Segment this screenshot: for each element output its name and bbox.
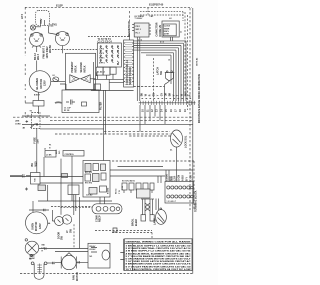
motor side label (48, 222, 51, 225)
main terminal block (165, 182, 194, 204)
cavity box (36, 11, 50, 26)
svg-text:9 V VIOLET FAN MOTOR CIRCUITS: 9 V VIOLET FAN MOTOR CIRCUITS 120 VAC 60 (126, 265, 192, 268)
svg-text:J1: J1 (181, 31, 183, 33)
svg-text:FIL 3: FIL 3 (136, 33, 140, 35)
vertical text right of T1 (156, 22, 162, 36)
label TM1 (52, 24, 57, 27)
svg-text:BR: BR (169, 93, 172, 97)
legend inner border (122, 239, 124, 271)
svg-text:1 BK BLACK SUPPLY L1 CIRCUITS: 1 BK BLACK SUPPLY L1 CIRCUITS 120 VAC 60 (126, 245, 192, 248)
label right of clock (181, 31, 183, 33)
svg-text:A BU: A BU (182, 175, 185, 181)
wire CB1 right (40, 128, 104, 130)
svg-text:LAMP: LAMP (153, 218, 156, 225)
legend rows (126, 245, 192, 271)
M1 bottom ticks (32, 46, 41, 48)
right bus verticals dashed (184, 12, 186, 95)
broil label (132, 218, 138, 226)
svg-text:FILTER: FILTER (100, 102, 103, 110)
wire y170 (110, 169, 193, 171)
svg-text:10 T TAN CONTROL CIRCUITS 24 V: 10 T TAN CONTROL CIRCUITS 24 VOLT DC LOW (126, 268, 192, 271)
connector block CB1 (32, 113, 40, 129)
svg-text:INTLK: INTLK (84, 65, 87, 72)
motor feed (32, 201, 34, 212)
svg-text:2 W WHITE NEUTRAL CIRCUITS 120: 2 W WHITE NEUTRAL CIRCUITS 120 VOLT AC N (126, 247, 192, 250)
svg-text:8113P387-60: 8113P387-60 (149, 3, 164, 6)
svg-text:RY1 RY2: RY1 RY2 (85, 172, 92, 174)
svg-text:TERMINAL BLOCK: TERMINAL BLOCK (195, 190, 198, 212)
page border right solid (192, 8, 194, 274)
svg-text:SEC 2: SEC 2 (136, 29, 141, 31)
svg-text:BOARD: BOARD (106, 187, 109, 194)
wire bus y120 (50, 119, 193, 121)
svg-text:P1: P1 (49, 145, 51, 147)
wire to door switch (60, 159, 62, 215)
indicator light circle-x (25, 241, 39, 255)
blower lead right (51, 81, 66, 83)
M2 ears (57, 33, 59, 35)
svg-text:BLOWER: BLOWER (35, 78, 39, 90)
T1 inner text (135, 15, 155, 35)
board smudge text (85, 172, 109, 197)
light label right (42, 245, 46, 253)
small comp upper-left of bottom (33, 101, 44, 107)
lamp oval (156, 210, 167, 225)
svg-text:OR: OR (165, 92, 168, 96)
svg-text:LINE: LINE (15, 121, 20, 123)
twin vertical wires (104, 90, 106, 161)
svg-text:120V: 120V (39, 223, 42, 229)
broil hatch (145, 203, 150, 211)
clock inner stripes (164, 26, 171, 36)
wire break ticks (44, 209, 46, 211)
svg-text:10: 10 (168, 59, 170, 61)
svg-text:5 Y YELLOW BAKE ELEMENT CIRCUI: 5 Y YELLOW BAKE ELEMENT CIRCUITS 240 VAC (126, 255, 192, 258)
oven zone fuse box (38, 185, 46, 191)
bus below aux (94, 78, 124, 80)
svg-text:ELEM: ELEM (135, 219, 138, 226)
svg-text:NOTE A2: NOTE A2 (196, 58, 199, 66)
wire left of matrix (93, 62, 95, 91)
vertical text under box A (31, 161, 38, 167)
CB1 bottom label (33, 137, 39, 144)
M1 sub marks (34, 53, 40, 60)
svg-text:MICROWAVE RANGE WIRING INFORMA: MICROWAVE RANGE WIRING INFORMATION (198, 74, 201, 123)
M1 lead down (36, 46, 38, 71)
matrix contacts col3 (112, 46, 114, 63)
separator dashed (13, 116, 193, 118)
receptacle label (96, 215, 102, 222)
resistor comp (82, 102, 87, 106)
control board box (83, 161, 110, 198)
svg-text:LIT3: LIT3 (21, 13, 24, 19)
lamp label left (153, 218, 156, 225)
svg-text:CLOCK: CLOCK (164, 26, 171, 28)
dashed feeders top right (140, 12, 183, 15)
oven relay box (68, 185, 79, 195)
tick marks top (129, 11, 131, 21)
svg-text:LOCK SOL: LOCK SOL (185, 135, 188, 148)
svg-text:G GN: G GN (178, 175, 181, 181)
table tick left (120, 253, 124, 260)
thermostat comp (31, 173, 41, 185)
dashes above T1 (147, 8, 149, 15)
svg-text:6 OR ORANGE OVEN MOTOR CIRCUIT: 6 OR ORANGE OVEN MOTOR CIRCUITS 120 VOLT (126, 258, 192, 261)
wire into box top (60, 84, 66, 90)
M1 label cluster (42, 45, 52, 59)
svg-text:CONTROL: CONTROL (65, 154, 75, 156)
svg-text:H1: H1 (53, 75, 55, 77)
svg-text:B Y: B Y (186, 177, 189, 181)
label box B (63, 151, 84, 157)
M2 lead (61, 46, 63, 54)
svg-text:PRI 1: PRI 1 (136, 26, 141, 28)
small comp above filter (94, 84, 100, 90)
svg-text:MOTOR: MOTOR (35, 222, 38, 231)
wire y90.5 (91, 90, 134, 92)
svg-text:R: R (149, 94, 152, 96)
bake coil squiggle (37, 265, 42, 272)
matrix contacts col2 (106, 46, 108, 63)
dashed wires above table (95, 230, 152, 232)
HV transformer box T1 (134, 23, 149, 37)
junction block on wire (62, 174, 68, 178)
oven bus lines (38, 200, 112, 202)
svg-text:ELEM: ELEM (30, 258, 35, 260)
legend table outer (125, 239, 193, 271)
receptacle rounded (92, 204, 122, 214)
blower motor circle (29, 71, 51, 93)
legend header (125, 242, 193, 244)
svg-text:CORD: CORD (15, 123, 21, 125)
svg-text:L2 R: L2 R (174, 176, 177, 181)
door switch leads (52, 210, 54, 221)
page border right dashed inner (189, 8, 191, 210)
bake element label (30, 255, 36, 260)
svg-text:3 R RED SUPPLY L2 CIRCUITS 240: 3 R RED SUPPLY L2 CIRCUITS 240 VAC 60 HZ (126, 250, 192, 253)
dashed wire to matrix (52, 49, 97, 51)
svg-text:MOTOR: MOTOR (76, 272, 79, 281)
part number top left (56, 4, 63, 7)
comp right of blower (53, 77, 59, 82)
svg-text:BK: BK (185, 93, 188, 97)
svg-text:DISPL: DISPL (164, 31, 170, 33)
drops from terminal bar (140, 105, 165, 132)
drop wires from boxes (137, 37, 140, 101)
wire y84 right (134, 86, 165, 88)
M1 ears (31, 34, 33, 36)
bowtie contacts (70, 75, 90, 83)
M2 inner marks (60, 37, 65, 40)
vertical label above control box (128, 21, 131, 37)
door switch twin circles (55, 217, 64, 226)
wires below aux (98, 74, 114, 79)
svg-text:B MOT: B MOT (34, 95, 41, 97)
noise filter box (62, 90, 99, 113)
terminal labels upper row (141, 92, 192, 96)
oven motor circle (26, 212, 48, 234)
label cluster right of wire (49, 145, 51, 150)
svg-text:GY: GY (161, 92, 164, 96)
aux labels (97, 71, 105, 74)
svg-text:BU 14: BU 14 (115, 188, 118, 194)
page border left dashed (24, 7, 26, 117)
electronic control tall box (124, 40, 134, 87)
cavity text (40, 18, 43, 23)
stirrer motor M2 circle (55, 32, 69, 46)
labels above terminal row (122, 180, 135, 183)
svg-text:WH BK: WH BK (49, 45, 52, 53)
control box pin ticks (124, 43, 134, 82)
fan motor circle (62, 255, 76, 269)
svg-text:BU: BU (153, 93, 156, 97)
matrix inner text (99, 48, 106, 65)
aux box 1 (96, 67, 103, 75)
dashed line mid top (88, 36, 130, 38)
label above clock (169, 18, 172, 20)
svg-text:C OR: C OR (189, 175, 192, 181)
tag marks (113, 228, 117, 232)
fan motor M1 circle (30, 33, 44, 47)
bus lines under boxes (134, 41, 186, 55)
svg-text:K5 24V: K5 24V (90, 248, 97, 251)
svg-text:T1 2200V: T1 2200V (135, 18, 144, 20)
plug circle with x (30, 25, 35, 30)
aux box 3 (110, 67, 116, 74)
relay text col 2 (80, 62, 87, 73)
terminal mid ticks row (142, 98, 192, 100)
svg-text:TIMER: TIMER (164, 28, 170, 30)
broil feet (141, 215, 146, 221)
svg-text:R1 1M: R1 1M (64, 110, 70, 112)
plus mark (25, 188, 28, 191)
svg-text:4 BU BLUE BROIL ELEMENT CIRCUI: 4 BU BLUE BROIL ELEMENT CIRCUITS 240 VAC (126, 252, 192, 255)
door lock dome (165, 73, 174, 81)
interlock relay box (65, 53, 95, 89)
svg-text:OVEN: OVEN (32, 223, 35, 230)
clock display box (162, 21, 179, 37)
relay leads down (74, 195, 76, 216)
labels in box (64, 108, 72, 112)
svg-text:J3: J3 (44, 149, 46, 151)
label cluster left of box A (55, 149, 61, 154)
svg-text:DIODE HV: DIODE HV (159, 25, 162, 37)
svg-text:120V: 120V (43, 80, 46, 86)
label outside left border (21, 13, 24, 19)
bold lead-in (55, 101, 62, 104)
terminal labels lower row (142, 109, 187, 112)
svg-text:Y 15: Y 15 (119, 190, 121, 194)
svg-text:CLK BD: CLK BD (86, 195, 93, 197)
staircase verticals (171, 41, 186, 101)
terminal block vertical text right (195, 190, 198, 212)
control box vertical text (126, 59, 132, 85)
svg-text:GENERAL WIRING CODE FOR ALL RA: GENERAL WIRING CODE FOR ALL RANGE (126, 241, 192, 244)
svg-text:K1 K2 K3 K4 K5: K1 K2 K3 K4 K5 (122, 180, 135, 183)
lower terminal row (122, 183, 127, 190)
board pins bottom (100, 197, 105, 204)
svg-text:W10: W10 (35, 161, 38, 167)
bake terminals (31, 262, 34, 265)
timer matrix labels above (98, 38, 113, 44)
svg-text:8113P: 8113P (56, 4, 63, 7)
separator dashed 2b (55, 133, 171, 135)
lamp feeds (156, 199, 159, 211)
fan label (73, 272, 79, 281)
svg-text:5 6 7 8: 5 6 7 8 (99, 53, 104, 55)
broil element rails (141, 198, 154, 200)
svg-text:24 HR: 24 HR (164, 33, 170, 36)
cavity lead right (49, 26, 57, 35)
svg-text:INTLK: INTLK (75, 65, 78, 72)
svg-text:TM1: TM1 (52, 24, 57, 27)
relay feed box (88, 243, 110, 268)
bowtie leads (90, 78, 95, 80)
separator dashed 2a (104, 131, 170, 133)
relay box (137, 189, 151, 198)
wire from control box down (71, 156, 73, 201)
legend column divider (132, 243, 134, 270)
label TB (49, 25, 54, 28)
svg-text:BK: BK (141, 93, 144, 97)
board inner parts (85, 164, 91, 172)
bake lead right (47, 262, 55, 264)
label box A (45, 151, 56, 158)
svg-text:A1 A2 A3: A1 A2 A3 (97, 71, 105, 74)
solenoid label below (170, 150, 173, 152)
capacitor C1 (66, 100, 75, 105)
labels under boxes (138, 39, 142, 41)
blower motor text (35, 78, 46, 90)
CB1 left labels (15, 121, 26, 130)
page border top dashed (25, 6, 192, 8)
fan leads (55, 261, 88, 263)
long verticals (79, 197, 81, 249)
svg-text:1 2 3 4 5 6 7: 1 2 3 4 5 6 7 (167, 200, 176, 203)
block bottom text (167, 200, 176, 203)
svg-text:WH 3: WH 3 (37, 53, 40, 60)
feeds into block (166, 170, 172, 182)
solenoid label right (185, 135, 188, 148)
M1 inner marks (34, 38, 39, 41)
light label below (29, 259, 32, 261)
terminal bar ticks (140, 101, 194, 105)
labels left of relay row (115, 186, 124, 194)
fan hat (65, 253, 74, 257)
dome label (157, 67, 163, 75)
label right of relay box (96, 71, 99, 76)
right edge note (196, 58, 199, 66)
clock pins down (171, 37, 173, 41)
svg-text:D E F G: D E F G (99, 62, 106, 64)
svg-text:7 GY GRAY DOOR LATCH SOLENOID: 7 GY GRAY DOOR LATCH SOLENOID CIRCUIT AC (126, 260, 192, 263)
svg-text:W 5: W 5 (59, 151, 61, 154)
wire CB1 down (36, 129, 38, 173)
wire from fuse down (47, 185, 49, 201)
svg-text:L1 BK: L1 BK (46, 155, 52, 157)
fan brackets (61, 257, 76, 269)
filter label (100, 102, 103, 110)
dashed bottom-panel top border (112, 160, 194, 162)
timer matrix box (97, 43, 121, 67)
matrix contacts col4 (117, 46, 119, 65)
svg-text:RY3 RY4: RY3 RY4 (85, 181, 92, 184)
bake element U (34, 264, 44, 280)
link to connector (38, 106, 40, 114)
aux box 2 (103, 67, 110, 75)
door switch labels below (57, 228, 72, 240)
dashed wire to receptacle (60, 207, 92, 209)
part number top right (149, 3, 164, 6)
matrix contacts col1 (100, 46, 102, 63)
wires light to box (39, 248, 88, 250)
right vertical title (198, 74, 201, 123)
page border bottom dashed (20, 273, 193, 275)
oval solenoid (171, 130, 183, 147)
wires into board (10, 176, 83, 178)
cavity pins (41, 20, 45, 26)
pins below relay row (124, 190, 152, 193)
svg-text:RECP: RECP (99, 215, 102, 222)
control box hatch rows (125, 43, 133, 85)
block labels above (166, 174, 193, 181)
relay text col 1 (71, 61, 78, 72)
wire y176 right (110, 175, 165, 177)
dome lead (165, 81, 170, 101)
blower bottom label (34, 95, 41, 97)
wire y166.5 (118, 166, 164, 168)
plug lead (36, 26, 41, 28)
solenoid leads left (128, 135, 171, 137)
wire bus y124 (22, 123, 193, 125)
terminal bar (139, 102, 196, 104)
svg-text:MOTOR: MOTOR (39, 79, 43, 89)
svg-text:R: R (189, 94, 192, 96)
T1 ticks right (149, 25, 151, 34)
solenoid lead down (176, 147, 178, 182)
